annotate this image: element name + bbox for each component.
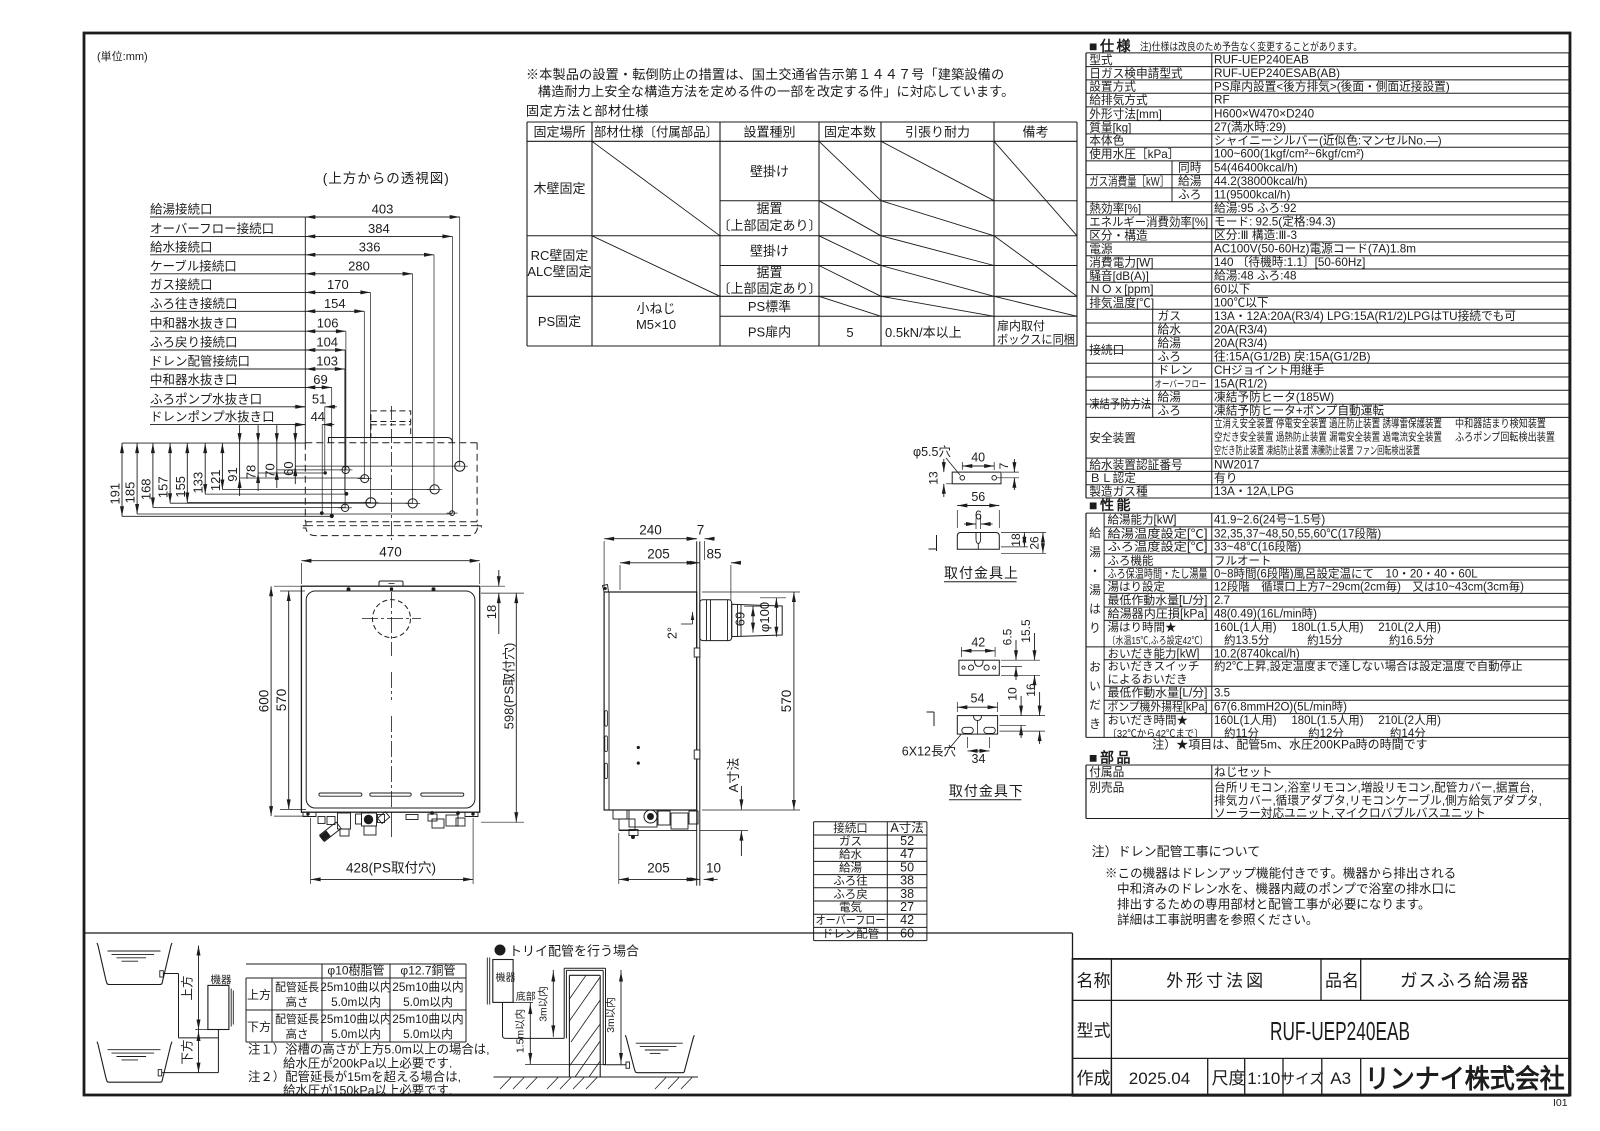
- svg-text:38: 38: [900, 874, 914, 888]
- svg-text:配管延長: 配管延長: [275, 980, 319, 994]
- svg-text:構造耐力上安全な構造方法を定める件の一部を改定する件」に対応: 構造耐力上安全な構造方法を定める件の一部を改定する件」に対応しています。: [538, 83, 1015, 99]
- svg-text:尺度: 尺度: [1212, 1069, 1246, 1088]
- ground line: [494, 1076, 699, 1078]
- svg-text:ふろ往き接続口: ふろ往き接続口: [150, 296, 238, 311]
- piping length table: [246, 963, 466, 965]
- svg-text:ふろポンプ水抜き口: ふろポンプ水抜き口: [150, 391, 262, 406]
- svg-text:湯はり時間★: 湯はり時間★: [1108, 621, 1177, 634]
- svg-text:上方: 上方: [180, 975, 195, 1000]
- svg-text:41.9~2.6(24号~1.5号): 41.9~2.6(24号~1.5号): [1214, 514, 1325, 527]
- svg-text:25m10曲以内: 25m10曲以内: [320, 980, 391, 994]
- reference line at kiki bottom: [195, 1029, 218, 1031]
- front bottom fittings: [318, 817, 325, 824]
- svg-text:ふろ: ふろ: [1178, 188, 1201, 201]
- top view ports: [455, 461, 465, 471]
- exhaust duct through wall: [700, 600, 732, 641]
- svg-text:お: お: [1089, 661, 1101, 674]
- svg-text:0~8時間(6段階)風呂設定温にて 10・20・40・60L: 0~8時間(6段階)風呂設定温にて 10・20・40・60L: [1214, 567, 1478, 581]
- svg-text:5.0m以内: 5.0m以内: [331, 995, 381, 1009]
- svg-text:給水接続口: 給水接続口: [150, 239, 213, 254]
- svg-text:ふろ: ふろ: [1158, 405, 1181, 418]
- svg-text:10: 10: [706, 861, 721, 876]
- svg-text:155: 155: [173, 476, 188, 498]
- svg-text:104: 104: [316, 335, 338, 350]
- fixing table diagonals: [592, 141, 720, 236]
- svg-text:熱効率[%]: 熱効率[%]: [1089, 201, 1141, 215]
- svg-text:154: 154: [324, 296, 346, 311]
- svg-text:注１）浴槽の高さが上方5.0m以上の場合は,: 注１）浴槽の高さが上方5.0m以上の場合は,: [248, 1042, 490, 1057]
- flue collar bump on top: [379, 581, 403, 586]
- pipe upper tub to junction: [163, 973, 178, 975]
- svg-text:オーバーフロー: オーバーフロー: [1155, 379, 1207, 389]
- svg-text:φ5.5穴: φ5.5穴: [913, 444, 951, 459]
- svg-text:A寸法: A寸法: [726, 758, 741, 793]
- svg-text:取付金具下: 取付金具下: [949, 783, 1024, 799]
- svg-text:133: 133: [191, 472, 206, 494]
- svg-text:160L(1人用) 180L(1.5人用) 210L(2: 160L(1人用) 180L(1.5人用) 210L(2人用): [1214, 621, 1441, 634]
- side louvers: [605, 711, 608, 727]
- svg-text:排出するための専用部材と配管工事が必要になります。: 排出するための専用部材と配管工事が必要になります。: [1117, 898, 1431, 912]
- svg-text:205: 205: [647, 861, 670, 876]
- svg-text:1.5m以内: 1.5m以内: [514, 1009, 527, 1053]
- svg-text:18: 18: [484, 605, 499, 619]
- svg-text:は: は: [1089, 603, 1101, 616]
- dim 69: [752, 606, 754, 632]
- svg-text:13A・12A,LPG: 13A・12A,LPG: [1214, 485, 1294, 498]
- svg-text:高さ: 高さ: [286, 995, 309, 1009]
- upper tub: [97, 943, 172, 985]
- svg-text:3m以内: 3m以内: [537, 986, 550, 1022]
- svg-text:(上方からの透視図): (上方からの透視図): [323, 171, 450, 186]
- svg-text:32,35,37~48,50,55,60℃(17段階): 32,35,37~48,50,55,60℃(17段階): [1214, 526, 1381, 540]
- wall clamps: [694, 648, 700, 657]
- svg-text:立消え安全装置 停電安全装置 過圧防止装置 誘導雷保護装置: 立消え安全装置 停電安全装置 過圧防止装置 誘導雷保護装置: [1214, 416, 1442, 430]
- svg-text:給湯:95 ふろ:92: 給湯:95 ふろ:92: [1214, 201, 1297, 215]
- svg-text:※この機器はドレンアップ機能付きです。機器から排出される: ※この機器はドレンアップ機能付きです。機器から排出される: [1105, 867, 1456, 881]
- svg-text:11(9500kcal/h): 11(9500kcal/h): [1214, 188, 1291, 201]
- svg-text:ガス接続口: ガス接続口: [150, 277, 213, 292]
- dim 3m right: [620, 970, 622, 1064]
- svg-text:15.5: 15.5: [1019, 619, 1033, 643]
- svg-text:160L(1人用) 180L(1.5人用) 210L(2: 160L(1人用) 180L(1.5人用) 210L(2人用): [1214, 714, 1441, 727]
- svg-text:ドレン: ドレン: [1158, 364, 1193, 377]
- svg-text:■性能: ■性能: [1089, 497, 1133, 513]
- svg-text:ふろ: ふろ: [1158, 351, 1181, 364]
- svg-text:台所リモコン,浴室リモコン,増設リモコン,配管カバー,据置台: 台所リモコン,浴室リモコン,増設リモコン,配管カバー,据置台,: [1214, 781, 1534, 795]
- svg-text:428(PS取付穴): 428(PS取付穴): [346, 861, 436, 876]
- svg-text:給水装置認証番号: 給水装置認証番号: [1089, 458, 1183, 472]
- svg-text:高さ: 高さ: [286, 1027, 309, 1041]
- svg-text:電気: 電気: [839, 900, 862, 914]
- svg-text:注）ドレン配管工事について: 注）ドレン配管工事について: [1092, 844, 1261, 859]
- svg-text:7: 7: [997, 462, 1011, 469]
- svg-text:48(0.49)(16L/min時): 48(0.49)(16L/min時): [1214, 607, 1317, 620]
- svg-text:機器: 機器: [496, 971, 516, 984]
- svg-text:固定本数: 固定本数: [824, 125, 876, 140]
- svg-text:約13.5分 約15分 約16.5分: 約13.5分 約15分 約16.5分: [1224, 633, 1435, 647]
- svg-text:質量[kg]: 質量[kg]: [1089, 120, 1131, 134]
- spec table: [1086, 52, 1569, 54]
- front bottom corner feet: [303, 812, 316, 817]
- joho dimension: [198, 946, 200, 1030]
- svg-text:RF: RF: [1214, 94, 1230, 107]
- svg-text:10.2(8740kcal/h): 10.2(8740kcal/h): [1214, 648, 1300, 660]
- svg-text:機器: 機器: [211, 973, 232, 986]
- svg-text:品名: 品名: [1325, 972, 1359, 991]
- svg-text:オーバーフロー: オーバーフロー: [816, 914, 886, 927]
- svg-text:67(6.8mmH2O)(5L/min時): 67(6.8mmH2O)(5L/min時): [1214, 701, 1347, 714]
- svg-text:598(PS取付穴): 598(PS取付穴): [501, 643, 516, 730]
- svg-text:20A(R3/4): 20A(R3/4): [1214, 324, 1267, 337]
- svg-text:191: 191: [108, 483, 123, 505]
- svg-text:リンナイ株式会社: リンナイ株式会社: [1365, 1064, 1565, 1094]
- svg-text:取付金具上: 取付金具上: [944, 565, 1019, 581]
- svg-text:70: 70: [262, 463, 277, 477]
- svg-text:ふろ往: ふろ往: [833, 874, 868, 888]
- svg-text:ＮＯｘ[ppm]: ＮＯｘ[ppm]: [1089, 283, 1153, 296]
- svg-text:扉内取付: 扉内取付: [997, 319, 1045, 333]
- svg-text:H600×W470×D240: H600×W470×D240: [1214, 107, 1315, 120]
- top screws: [347, 588, 350, 591]
- svg-text:設置方式: 設置方式: [1089, 80, 1136, 94]
- svg-text:注）★項目は、配管5m、水圧200KPa時の時間です: 注）★項目は、配管5m、水圧200KPa時の時間です: [1152, 737, 1427, 752]
- svg-text:ガス: ガス: [1158, 310, 1181, 323]
- svg-text:85: 85: [706, 547, 721, 562]
- svg-text:給湯: 給湯: [839, 860, 862, 874]
- dim 3m left: [552, 970, 554, 1037]
- svg-text:引張り耐力: 引張り耐力: [905, 125, 970, 140]
- svg-text:10: 10: [1006, 687, 1020, 701]
- side view body: [604, 592, 697, 810]
- louver slots: [319, 793, 362, 796]
- svg-text:60: 60: [281, 461, 296, 475]
- front dim 570: [288, 591, 290, 809]
- svg-text:570: 570: [274, 689, 289, 712]
- front dim 428 PS: [310, 818, 312, 884]
- svg-text:給湯器内圧損[kPa]: 給湯器内圧損[kPa]: [1108, 606, 1208, 620]
- svg-text:部材仕様〔付属部品〕: 部材仕様〔付属部品〕: [594, 125, 718, 140]
- svg-text:69: 69: [733, 612, 748, 626]
- svg-text:詳細は工事説明書を参照ください。: 詳細は工事説明書を参照ください。: [1117, 912, 1319, 927]
- svg-text:20A(R3/4): 20A(R3/4): [1214, 337, 1267, 350]
- svg-text:6.5: 6.5: [1001, 628, 1015, 645]
- svg-text:100~600(1kgf/cm²~6kgf/cm²): 100~600(1kgf/cm²~6kgf/cm²): [1214, 148, 1364, 161]
- svg-text:下方: 下方: [247, 1019, 271, 1034]
- lower tub: [97, 1042, 172, 1083]
- svg-text:騒音[dB(A)]: 騒音[dB(A)]: [1089, 269, 1149, 283]
- svg-text:0.5kN/本以上: 0.5kN/本以上: [885, 325, 962, 340]
- svg-text:34: 34: [972, 752, 986, 766]
- svg-text:区分・構造: 区分・構造: [1089, 228, 1148, 242]
- svg-text:中和器水抜き口: 中和器水抜き口: [150, 316, 238, 331]
- svg-text:外形寸法図: 外形寸法図: [1166, 972, 1266, 991]
- svg-text:モード: 92.5(定格:94.3): モード: 92.5(定格:94.3): [1214, 214, 1336, 228]
- vertical dimension block: [122, 442, 305, 444]
- svg-text:排気温度[℃]: 排気温度[℃]: [1089, 296, 1154, 310]
- side dim 570: [702, 591, 800, 593]
- svg-text:51: 51: [312, 391, 326, 406]
- svg-text:RC壁固定: RC壁固定: [531, 248, 589, 263]
- svg-text:38: 38: [900, 887, 914, 901]
- svg-text:18: 18: [1009, 533, 1023, 547]
- svg-text:121: 121: [208, 469, 223, 491]
- svg-text:60以下: 60以下: [1214, 283, 1251, 296]
- svg-text:384: 384: [368, 221, 390, 236]
- svg-text:オーバーフロー接続口: オーバーフロー接続口: [150, 221, 274, 236]
- svg-text:湯: 湯: [1089, 584, 1101, 597]
- svg-text:1:10: 1:10: [1247, 1069, 1280, 1088]
- title block: [1073, 959, 1570, 1096]
- front dim 470: [300, 563, 302, 584]
- svg-text:42: 42: [900, 913, 914, 927]
- svg-text:■部品: ■部品: [1089, 750, 1133, 766]
- svg-text:ガス消費量［kW］: ガス消費量［kW］: [1089, 174, 1169, 188]
- svg-text:上方: 上方: [247, 987, 271, 1002]
- svg-text:本体色: 本体色: [1089, 134, 1124, 148]
- svg-text:ポンプ機外揚程[kPa]: ポンプ機外揚程[kPa]: [1108, 700, 1208, 714]
- svg-text:木壁固定: 木壁固定: [533, 181, 585, 196]
- svg-text:安全装置: 安全装置: [1089, 431, 1136, 445]
- svg-text:有り: 有り: [1214, 471, 1237, 485]
- svg-text:給湯温度設定[℃]: 給湯温度設定[℃]: [1108, 526, 1208, 540]
- svg-text:A3: A3: [1330, 1069, 1351, 1088]
- torii pipe run: [503, 1002, 565, 1038]
- dim 1.5m: [525, 1063, 605, 1065]
- svg-text:ふろ保温時間・たし湯量: ふろ保温時間・たし湯量: [1108, 567, 1208, 581]
- svg-text:配管延長: 配管延長: [275, 1012, 319, 1026]
- svg-text:凍結予防ヒータ+ポンプ自動運転: 凍結予防ヒータ+ポンプ自動運転: [1214, 404, 1384, 418]
- svg-text:給湯: 給湯: [1158, 390, 1182, 404]
- svg-text:底部: 底部: [516, 990, 536, 1003]
- wall pillar with hatch: [568, 975, 570, 1077]
- svg-text:設置種別: 設置種別: [743, 125, 795, 140]
- svg-text:12段階 循環口上方7~29cm(2cm毎) 又は10~43: 12段階 循環口上方7~29cm(2cm毎) 又は10~43cm(3cm毎): [1214, 579, 1524, 593]
- dashed exhaust circle: [373, 600, 411, 638]
- dim phi100: [775, 598, 777, 637]
- svg-text:5.0m以内: 5.0m以内: [403, 1027, 453, 1041]
- svg-text:ALC壁固定: ALC壁固定: [527, 264, 591, 279]
- svg-text:ねじセット: ねじセット: [1214, 766, 1272, 779]
- svg-text:27(満水時:29): 27(満水時:29): [1214, 121, 1286, 134]
- svg-text:給湯能力[kW]: 給湯能力[kW]: [1108, 513, 1177, 527]
- svg-text:PS扉内設置<後方排気>(後面・側面近接設置): PS扉内設置<後方排気>(後面・側面近接設置): [1214, 79, 1450, 93]
- svg-text:給湯: 給湯: [1178, 174, 1202, 188]
- svg-text:給水圧が150kPa以上必要です.: 給水圧が150kPa以上必要です.: [283, 1083, 452, 1098]
- side top hook: [603, 585, 609, 593]
- svg-text:RUF-UEP240EAB: RUF-UEP240EAB: [1270, 1016, 1410, 1046]
- svg-text:336: 336: [359, 239, 381, 254]
- svg-text:名称: 名称: [1077, 972, 1111, 991]
- svg-text:中和器詰まり検知装置: 中和器詰まり検知装置: [1455, 416, 1546, 430]
- svg-text:280: 280: [348, 258, 370, 273]
- svg-text:54(46400kcal/h): 54(46400kcal/h): [1214, 161, 1298, 174]
- front dim 18: [481, 585, 505, 587]
- svg-text:2°: 2°: [666, 627, 680, 639]
- bottom-left box frame: [84, 932, 1073, 934]
- port extension lines: [122, 515, 332, 517]
- svg-text:下方: 下方: [180, 1039, 195, 1064]
- svg-text:170: 170: [327, 277, 349, 292]
- svg-text:〔水温15℃,ふろ設定42℃〕: 〔水温15℃,ふろ設定42℃〕: [1108, 634, 1208, 647]
- svg-text:約2℃上昇,設定温度まで達しない場合は設定温度で自動停止: 約2℃上昇,設定温度まで達しない場合は設定温度で自動停止: [1214, 659, 1523, 673]
- svg-text:給水: 給水: [839, 847, 862, 861]
- svg-text:別売品: 別売品: [1089, 782, 1124, 795]
- svg-text:ドレン配管接続口: ドレン配管接続口: [150, 354, 250, 369]
- svg-text:給湯接続口: 給湯接続口: [150, 202, 213, 217]
- front dim 600: [270, 586, 272, 816]
- svg-text:おいだき時間★: おいだき時間★: [1108, 714, 1189, 727]
- svg-text:接続口: 接続口: [833, 821, 868, 835]
- svg-text:シャイニーシルバー(近似色:マンセルNo.—): シャイニーシルバー(近似色:マンセルNo.—): [1214, 133, 1442, 147]
- svg-text:中和済みのドレン水を、機器内蔵のポンプで浴室の排水口に: 中和済みのドレン水を、機器内蔵のポンプで浴室の排水口に: [1117, 881, 1457, 896]
- svg-text:5.0m以内: 5.0m以内: [403, 995, 453, 1009]
- svg-text:106: 106: [317, 316, 339, 331]
- svg-text:91: 91: [225, 467, 240, 481]
- torii piping title: [495, 945, 505, 955]
- svg-text:φ10樹脂管: φ10樹脂管: [327, 963, 384, 978]
- svg-text:最低作動水量[L/分]: 最低作動水量[L/分]: [1108, 686, 1208, 700]
- svg-text:25m10曲以内: 25m10曲以内: [320, 1012, 391, 1026]
- svg-text:固定方法と部材仕様: 固定方法と部材仕様: [526, 104, 649, 119]
- svg-text:13: 13: [927, 471, 941, 485]
- side bottom dims 205 / 10: [618, 833, 620, 884]
- svg-text:(単位:mm): (単位:mm): [97, 49, 148, 63]
- svg-text:47: 47: [900, 847, 914, 861]
- svg-text:56: 56: [971, 490, 985, 504]
- svg-text:6: 6: [975, 509, 982, 523]
- svg-text:205: 205: [647, 547, 670, 562]
- svg-text:570: 570: [779, 690, 794, 713]
- svg-text:同時: 同時: [1178, 161, 1202, 174]
- top view centerline: [391, 406, 393, 540]
- svg-text:壁掛け: 壁掛け: [750, 244, 789, 259]
- svg-text:外形寸法[mm]: 外形寸法[mm]: [1089, 107, 1162, 121]
- svg-text:サイズ: サイズ: [1281, 1071, 1324, 1088]
- svg-text:壁掛け: 壁掛け: [750, 164, 789, 179]
- svg-text:5: 5: [846, 325, 853, 340]
- svg-text:によるおいだき: によるおいだき: [1108, 673, 1188, 686]
- svg-text:PS扉内: PS扉内: [748, 325, 791, 340]
- svg-text:78: 78: [244, 465, 259, 479]
- svg-text:240: 240: [639, 523, 662, 538]
- svg-text:470: 470: [379, 545, 402, 560]
- front view inner panel: [306, 591, 475, 808]
- kiki box (torii): [486, 958, 488, 1005]
- A size table: [814, 821, 927, 823]
- svg-text:注２）配管延長が15mを超える場合は,: 注２）配管延長が15mを超える場合は,: [248, 1069, 461, 1084]
- upper tub outlet nub: [160, 971, 164, 977]
- svg-text:26: 26: [1027, 536, 1041, 550]
- reference vertical line x0: [304, 217, 306, 443]
- svg-text:φ100: φ100: [757, 602, 772, 632]
- svg-text:ＢＬ認定: ＢＬ認定: [1089, 471, 1136, 485]
- svg-text:42: 42: [971, 635, 985, 649]
- front view outer body: [301, 586, 479, 812]
- svg-text:使用水圧［kPa］: 使用水圧［kPa］: [1089, 147, 1179, 161]
- svg-text:ふろ温度設定[℃]: ふろ温度設定[℃]: [1108, 540, 1208, 554]
- bracket bottom (slots): [957, 716, 997, 735]
- svg-text:据置: 据置: [756, 265, 782, 280]
- exhaust duct (dashed): [371, 411, 411, 438]
- svg-text:〔上部固定あり〕: 〔上部固定あり〕: [717, 281, 821, 296]
- svg-text:最低作動水量[L/分]: 最低作動水量[L/分]: [1108, 593, 1208, 607]
- svg-text:16: 16: [1024, 683, 1038, 697]
- svg-text:15A(R1/2): 15A(R1/2): [1214, 378, 1267, 391]
- svg-text:だ: だ: [1089, 699, 1101, 712]
- bracket middle (small holes): [959, 660, 999, 675]
- svg-text:排気カバー,循環アダプタ,リモコンケーブル,側方給気アダプタ: 排気カバー,循環アダプタ,リモコンケーブル,側方給気アダプタ,: [1214, 794, 1542, 808]
- svg-text:2025.04: 2025.04: [1129, 1069, 1190, 1088]
- right tub: [625, 1035, 694, 1073]
- svg-text:給湯:48 ふろ:48: 給湯:48 ふろ:48: [1214, 269, 1297, 283]
- svg-text:おいだき能力[kW]: おいだき能力[kW]: [1108, 646, 1200, 660]
- pipe kiki to lower tub: [217, 1030, 219, 1073]
- L-mark upper: [936, 535, 938, 551]
- svg-text:消費電力[W]: 消費電力[W]: [1089, 256, 1153, 270]
- svg-text:2.7: 2.7: [1214, 595, 1230, 607]
- svg-text:ふろ機能: ふろ機能: [1108, 553, 1154, 567]
- svg-text:ソーラー対応ユニット,マイクロバブルバスユニット: ソーラー対応ユニット,マイクロバブルバスユニット: [1214, 806, 1486, 820]
- svg-text:備考: 備考: [1022, 125, 1048, 140]
- svg-text:PS固定: PS固定: [538, 314, 581, 329]
- svg-text:54: 54: [971, 692, 985, 706]
- side dims 240 / 7: [603, 541, 605, 590]
- svg-text:日ガス検申請型式: 日ガス検申請型式: [1089, 66, 1183, 80]
- svg-text:φ12.7銅管: φ12.7銅管: [400, 963, 455, 978]
- svg-text:103: 103: [316, 354, 338, 369]
- bottom tray (dashed): [302, 522, 481, 536]
- svg-text:フルオート: フルオート: [1214, 554, 1272, 567]
- svg-text:7: 7: [697, 523, 705, 538]
- svg-text:ふろポンプ回転検出装置: ふろポンプ回転検出装置: [1455, 429, 1555, 443]
- svg-text:固定場所: 固定場所: [533, 125, 585, 140]
- svg-text:3.5: 3.5: [1214, 688, 1230, 700]
- svg-text:〔上部固定あり〕: 〔上部固定あり〕: [717, 218, 821, 233]
- svg-text:小ねじ: 小ねじ: [636, 301, 675, 316]
- svg-text:り: り: [1089, 622, 1101, 635]
- svg-text:25m10曲以内: 25m10曲以内: [392, 1012, 463, 1026]
- svg-text:湯はり設定: 湯はり設定: [1108, 579, 1166, 593]
- svg-text:3m以内: 3m以内: [604, 997, 617, 1033]
- svg-text:い: い: [1089, 680, 1101, 693]
- svg-text:ふろ戻り接続口: ふろ戻り接続口: [150, 335, 238, 350]
- svg-text:接続口: 接続口: [1089, 343, 1124, 357]
- svg-text:凍結予防方法: 凍結予防方法: [1089, 397, 1151, 411]
- svg-text:RUF-UEP240ESAB(AB): RUF-UEP240ESAB(AB): [1214, 67, 1340, 80]
- svg-text:600: 600: [256, 690, 271, 713]
- top view mounting plate solid band: [329, 438, 453, 443]
- svg-text:おいだきスイッチ: おいだきスイッチ: [1108, 660, 1200, 673]
- svg-text:往:15A(G1/2B) 戻:15A(G1/2B): 往:15A(G1/2B) 戻:15A(G1/2B): [1214, 350, 1371, 364]
- svg-text:※本製品の設置・転倒防止の措置は、国土交通省告示第１４４７号: ※本製品の設置・転倒防止の措置は、国土交通省告示第１４４７号「建築設備の: [526, 66, 1004, 82]
- L-mark lower: [933, 712, 935, 726]
- svg-text:AC100V(50-60Hz)電源コード(7A)1.8m: AC100V(50-60Hz)電源コード(7A)1.8m: [1214, 242, 1416, 256]
- svg-text:作成: 作成: [1077, 1069, 1111, 1088]
- svg-text:403: 403: [372, 202, 394, 217]
- svg-text:空だき防止装置 凍結防止装置 沸騰防止装置 ファン回転検出装: 空だき防止装置 凍結防止装置 沸騰防止装置 ファン回転検出装置: [1214, 443, 1420, 457]
- gehou dimension: [198, 1030, 200, 1073]
- svg-text:注)仕様は改良のため予告なく変更することがあります。: 注)仕様は改良のため予告なく変更することがあります。: [1140, 40, 1362, 53]
- svg-text:5.0m以内: 5.0m以内: [331, 1027, 381, 1041]
- svg-text:44.2(38000kcal/h): 44.2(38000kcal/h): [1214, 175, 1308, 188]
- svg-text:給水: 給水: [1158, 323, 1182, 337]
- svg-text:区分:Ⅲ 構造:Ⅲ-3: 区分:Ⅲ 構造:Ⅲ-3: [1214, 228, 1297, 242]
- svg-text:27: 27: [900, 900, 914, 914]
- 2 degree annotation: [692, 612, 694, 624]
- top view (perspective from above): [305, 442, 477, 444]
- svg-text:100℃以下: 100℃以下: [1214, 297, 1269, 310]
- svg-text:電源: 電源: [1089, 242, 1113, 256]
